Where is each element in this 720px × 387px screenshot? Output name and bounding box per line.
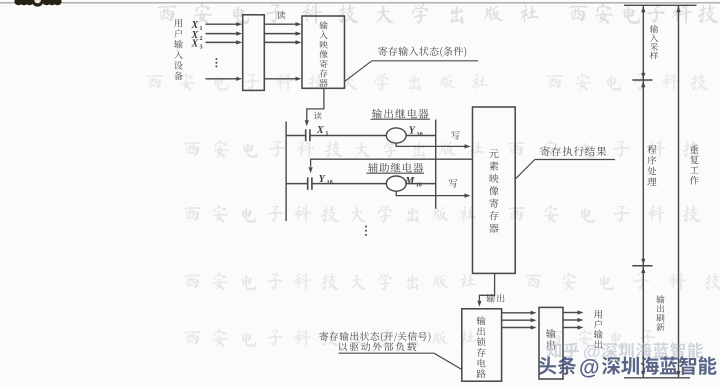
label X1 [316, 125, 328, 137]
label M10 coil [404, 176, 421, 189]
dimension segment program-processing [632, 81, 652, 266]
svg-text:@: @ [579, 357, 599, 380]
scan top edge line [0, 2, 720, 4]
watermark ghost [546, 342, 703, 362]
rung2 wire left [286, 183, 307, 185]
box input-image-register [302, 16, 345, 88]
label auxiliary-relay [367, 163, 425, 173]
coil Y10 [386, 128, 406, 143]
arrows output-box to user [563, 310, 584, 329]
label write 2 [449, 179, 458, 187]
label input-sampling [650, 25, 658, 59]
wire register to latch [477, 273, 494, 306]
dimension bottom bar [624, 377, 690, 379]
label Y10 coil [409, 126, 423, 139]
arrows interface to input-image-register [264, 22, 301, 81]
contact Y10 [308, 177, 312, 189]
watermark row 5 [184, 273, 720, 291]
rung1 wire right [406, 135, 436, 137]
svg-text:X: X [316, 125, 324, 136]
input arrows to interface box [206, 22, 243, 81]
svg-text:X: X [191, 39, 199, 50]
label program-processing [647, 145, 656, 186]
watermark toutiao blue [538, 356, 716, 379]
label user-output [594, 310, 603, 348]
labels X1 X2 X3 [191, 20, 203, 51]
coil M10 [386, 176, 406, 191]
read label top [277, 11, 285, 19]
dimension segment output-refresh [641, 266, 645, 377]
label output-relay [371, 109, 431, 120]
dimension top bar [624, 4, 697, 6]
box element-image-register [473, 107, 516, 273]
svg-text:2: 2 [200, 36, 203, 42]
svg-text:3: 3 [200, 45, 203, 51]
callout register-execution-result [515, 146, 615, 179]
box input interface [243, 15, 265, 91]
write line 2 [396, 191, 470, 198]
svg-text:M: M [404, 176, 415, 187]
watermark row 1 [158, 3, 719, 24]
box output [539, 307, 563, 379]
right rail [435, 120, 437, 209]
read label 2 [314, 112, 322, 120]
dimension segment input-sampling [632, 6, 652, 80]
left rail [285, 122, 287, 222]
wire register to X1 contact [305, 88, 324, 126]
watermark row 2 [146, 73, 708, 91]
dimension line repeat-cycle [676, 6, 680, 378]
svg-text:1: 1 [200, 26, 203, 32]
callout latched-output-state [319, 332, 462, 370]
label write 1 [451, 131, 460, 139]
arrows latch to output-box [502, 311, 537, 330]
ellipsis dots rungs [365, 226, 367, 236]
scan corner logo remnant [14, 0, 61, 7]
watermark row 4 [184, 205, 700, 223]
callout register-input-state [345, 46, 478, 81]
label output wire [486, 294, 504, 303]
label user-input-device [174, 19, 183, 80]
rung1 wire middle [310, 135, 386, 137]
rung2 wire middle [312, 183, 386, 185]
label repeat-cycle [690, 145, 699, 184]
label output-refresh [656, 295, 664, 331]
contact X1 [306, 129, 310, 141]
ellipsis dots input [215, 58, 217, 67]
watermark row 6 [184, 329, 655, 347]
rung2 wire right [406, 183, 436, 185]
label Y10 contact [319, 174, 333, 186]
write line 1 [396, 143, 470, 149]
rung1 wire left [286, 135, 305, 137]
watermark row 3 [184, 140, 700, 158]
box output-latch-circuit [462, 309, 502, 381]
wire register to Y10 contact [309, 159, 473, 173]
